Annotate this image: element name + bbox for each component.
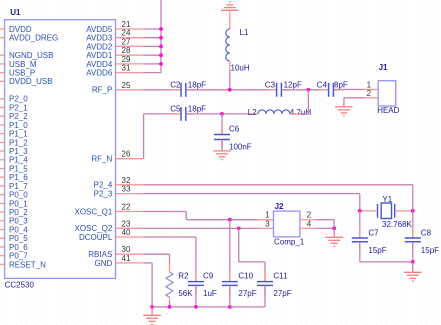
pin RBIAS (30) stub: [116, 253, 144, 255]
capacitor C7 plates: [352, 238, 368, 242]
svg-text:22: 22: [122, 203, 131, 212]
svg-text:21: 21: [122, 20, 131, 29]
svg-text:P0_3: P0_3: [9, 217, 28, 226]
wire RBIAS (30) to R2: [144, 253, 170, 255]
pin NGND_USB stub: [0, 54, 5, 56]
capacitor C2 pin stubs: [172, 89, 181, 91]
pin P2_4 (32) stub: [116, 184, 144, 186]
inductor L2 coil: [258, 110, 290, 114]
junction C3/C4/L2: [307, 88, 311, 92]
wire RF_N to C5: [144, 113, 181, 115]
svg-text:RESET_N: RESET_N: [9, 260, 46, 269]
svg-text:P2_2: P2_2: [9, 112, 28, 121]
pin P1_5 stub: [0, 168, 5, 170]
svg-text:27: 27: [122, 37, 131, 46]
svg-text:P1_5: P1_5: [9, 164, 28, 173]
junction Y1 right: [411, 209, 415, 213]
capacitor C3 plates: [277, 83, 282, 97]
svg-text:U1: U1: [10, 8, 21, 17]
svg-text:15pF: 15pF: [368, 246, 386, 255]
connector J2 body: [274, 211, 300, 237]
svg-text:25: 25: [122, 81, 131, 90]
capacitor C3 pin stubs: [268, 89, 277, 91]
capacitor C4 plates: [329, 83, 334, 97]
svg-text:P0_0: P0_0: [9, 191, 28, 200]
J2 pin 3 stub: [258, 227, 274, 229]
inductor L1 coil: [226, 29, 230, 61]
wire C2 to C3: [186, 89, 277, 91]
capacitor C11 pin stubs: [264, 273, 266, 282]
wire AVDD pin row to bus: [144, 54, 162, 56]
svg-text:HEAD: HEAD: [377, 106, 399, 115]
pin P0_3 stub: [0, 220, 5, 222]
wire AVDD pin row to bus: [144, 28, 162, 30]
svg-text:32: 32: [122, 176, 131, 185]
svg-text:C3: C3: [265, 81, 276, 90]
svg-text:DCOUPL: DCOUPL: [79, 233, 113, 242]
ground (C7/C8): [404, 272, 422, 281]
svg-text:Comp_1: Comp_1: [274, 237, 305, 246]
svg-text:27pF: 27pF: [238, 289, 256, 298]
pin DVDD stub: [0, 28, 5, 30]
svg-text:P0_2: P0_2: [9, 208, 28, 217]
svg-text:P1_0: P1_0: [9, 121, 28, 130]
wire C3 to C4: [281, 89, 328, 91]
svg-text:26: 26: [122, 150, 131, 159]
junction: [159, 36, 163, 40]
pin USB_M stub: [0, 63, 5, 65]
svg-text:18pF: 18pF: [188, 105, 206, 114]
svg-text:P0_6: P0_6: [9, 243, 28, 252]
svg-text:P2_0: P2_0: [9, 95, 28, 104]
svg-text:P2_4: P2_4: [94, 181, 113, 190]
wire DCOUPL (40) to C9: [144, 236, 196, 238]
junction bus/C10: [228, 305, 232, 309]
junction: [159, 27, 163, 31]
junction: [159, 45, 163, 49]
capacitor C5 pin stubs: [172, 113, 181, 115]
pin AVDD2 (27) stub: [116, 45, 144, 47]
svg-text:DVDD_USB: DVDD_USB: [9, 77, 53, 86]
capacitor C6 pin stubs: [221, 126, 223, 135]
svg-text:C9: C9: [203, 271, 214, 280]
capacitor C10 plates: [222, 282, 238, 286]
pin DVDD_USB stub: [0, 80, 5, 82]
svg-text:P1_7: P1_7: [9, 182, 28, 191]
capacitor C9 pin stubs: [195, 273, 197, 282]
svg-text:C10: C10: [238, 271, 253, 280]
svg-text:USB_M: USB_M: [9, 60, 37, 69]
svg-text:41: 41: [122, 254, 131, 263]
junction C7/C8 ground: [411, 260, 415, 264]
svg-text:29: 29: [122, 55, 131, 64]
svg-text:8pF: 8pF: [334, 81, 348, 90]
wire AVDD pin row to bus: [144, 72, 162, 74]
resistor R2 zigzag: [166, 272, 173, 297]
svg-text:12pF: 12pF: [284, 81, 302, 90]
ground (C6): [213, 151, 231, 160]
pin AVDD4 (29) stub: [116, 63, 144, 65]
ground bus: [152, 306, 265, 308]
capacitor C2 plates: [181, 83, 186, 97]
svg-text:L1: L1: [240, 28, 249, 37]
pin P0_1 stub: [0, 202, 5, 204]
svg-text:P1_6: P1_6: [9, 173, 28, 182]
capacitor C11 plates: [257, 282, 273, 286]
svg-text:NGND_USB: NGND_USB: [9, 51, 53, 60]
pin P0_4 stub: [0, 229, 5, 231]
svg-text:AVDD4: AVDD4: [86, 60, 113, 69]
wire RF_P to C2: [144, 89, 182, 91]
svg-text:XOSC_Q2: XOSC_Q2: [75, 224, 113, 233]
svg-text:RF_P: RF_P: [92, 86, 112, 95]
svg-text:10uH: 10uH: [231, 63, 250, 72]
pin P2_3 (33) stub: [116, 193, 144, 195]
wire Y1 right: [395, 210, 413, 212]
svg-text:AVDD_DREG: AVDD_DREG: [9, 34, 58, 43]
svg-text:RBIAS: RBIAS: [88, 250, 112, 259]
svg-text:C6: C6: [229, 124, 240, 133]
svg-text:100nF: 100nF: [229, 143, 252, 152]
junction: [159, 62, 163, 66]
svg-text:C2: C2: [170, 81, 181, 90]
junction bus/C9: [194, 305, 198, 309]
svg-text:AVDD6: AVDD6: [86, 69, 113, 78]
pin DCOUPL (40) stub: [116, 236, 144, 238]
J1 pin 1 stub: [364, 89, 378, 91]
capacitor C4 pin stubs: [320, 89, 329, 91]
svg-text:18pF: 18pF: [188, 81, 206, 90]
svg-text:28: 28: [122, 46, 131, 55]
junction: [159, 53, 163, 57]
svg-text:CC2530: CC2530: [5, 280, 35, 289]
pin RF_P (25) stub: [116, 89, 144, 91]
junction J2 ground: [332, 227, 336, 231]
svg-text:2: 2: [367, 89, 372, 98]
svg-text:C11: C11: [273, 271, 288, 280]
svg-text:P0_7: P0_7: [9, 252, 28, 261]
svg-text:J2: J2: [275, 202, 284, 211]
wire C5 to L2: [186, 113, 249, 115]
pin P1_3 stub: [0, 150, 5, 152]
junction bus/R2: [168, 305, 172, 309]
svg-text:XOSC_Q1: XOSC_Q1: [75, 207, 113, 216]
pin RESET_N stub: [0, 263, 5, 265]
wire C10: [229, 220, 231, 282]
pin P1_2 stub: [0, 141, 5, 143]
svg-text:P1_2: P1_2: [9, 138, 28, 147]
svg-text:P1_1: P1_1: [9, 130, 28, 139]
ground (bus): [143, 315, 161, 324]
svg-text:23: 23: [122, 219, 131, 228]
wire GND (41) down: [144, 262, 153, 264]
wire RF_N to C6: [221, 114, 223, 135]
J2 pin 2 stub: [300, 219, 316, 221]
pin XOSC_Q2 (23) stub: [116, 227, 144, 229]
junction C6/RF_N: [220, 112, 224, 116]
wire C7 bottom to C8 bottom: [360, 261, 413, 263]
svg-text:P1_3: P1_3: [9, 147, 28, 156]
junction L1/RF_P: [228, 88, 232, 92]
pin P0_6 stub: [0, 246, 5, 248]
pin AVDD1 (28) stub: [116, 54, 144, 56]
connector J1 body: [378, 81, 396, 106]
wire Y1 left: [360, 210, 378, 212]
svg-text:56K: 56K: [178, 289, 193, 298]
junction C10/XOSC_Q1: [228, 218, 232, 222]
wire XOSC_Q2 (23): [144, 227, 259, 229]
power symbol (inverted bars) above L1: [221, 2, 239, 10]
svg-text:15pF: 15pF: [421, 246, 439, 255]
svg-text:P1_4: P1_4: [9, 156, 28, 165]
ground (J1 pin2): [335, 107, 353, 116]
wire C4 to J1 pin1: [333, 89, 364, 91]
svg-text:AVDD5: AVDD5: [86, 25, 113, 34]
pin P0_2 stub: [0, 211, 5, 213]
svg-text:GND: GND: [95, 259, 113, 268]
wire C11: [238, 228, 240, 262]
svg-text:AVDD2: AVDD2: [86, 42, 113, 51]
pin P1_0 stub: [0, 124, 5, 126]
svg-text:P0_4: P0_4: [9, 226, 28, 235]
pin P1_1 stub: [0, 133, 5, 135]
svg-text:J1: J1: [379, 63, 388, 72]
ground (J2): [325, 237, 343, 246]
capacitor C10 pin stubs: [229, 273, 231, 282]
svg-text:40: 40: [122, 228, 131, 237]
AVDD power bus vertical wire: [160, 0, 162, 73]
svg-text:P0_1: P0_1: [9, 199, 28, 208]
capacitor C8 pin stubs: [412, 229, 414, 238]
svg-text:32.768K: 32.768K: [382, 220, 412, 229]
junction bus/gnd: [150, 305, 154, 309]
L2 pin stub: [249, 113, 258, 115]
J1 pin 2 stub: [364, 97, 378, 99]
svg-text:33: 33: [122, 185, 131, 194]
pin P2_0 stub: [0, 98, 5, 100]
pin USB_P stub: [0, 72, 5, 74]
svg-text:C8: C8: [421, 228, 432, 237]
pin GND (41) stub: [116, 262, 144, 264]
svg-text:AVDD1: AVDD1: [86, 51, 113, 60]
pin P1_4 stub: [0, 159, 5, 161]
svg-text:Y1: Y1: [382, 195, 392, 204]
capacitor C5 plates: [181, 107, 186, 121]
svg-text:31: 31: [122, 64, 131, 73]
wire AVDD pin row to bus: [144, 45, 162, 47]
J2 pin 4 stub: [300, 227, 316, 229]
wire C7: [359, 211, 361, 238]
wire AVDD pin row to bus: [144, 37, 162, 39]
svg-text:DVDD: DVDD: [9, 25, 32, 34]
pin P0_5 stub: [0, 237, 5, 239]
junction C11/XOSC_Q2: [237, 227, 241, 231]
capacitor C6 plates: [214, 135, 230, 140]
pin RF_N (26) stub: [116, 158, 144, 160]
pin P1_6 stub: [0, 176, 5, 178]
wire C8: [412, 211, 414, 238]
svg-text:3: 3: [265, 219, 270, 228]
svg-text:1: 1: [265, 211, 270, 220]
svg-text:P0_5: P0_5: [9, 234, 28, 243]
svg-text:P2_1: P2_1: [9, 103, 28, 112]
pin P2_2 stub: [0, 115, 5, 117]
capacitor C9 plates: [188, 282, 204, 286]
svg-text:USB_P: USB_P: [9, 69, 35, 78]
svg-text:2: 2: [307, 211, 312, 220]
pin XOSC_Q1 (22) stub: [116, 211, 144, 213]
pin P0_0 stub: [0, 194, 5, 196]
svg-text:C5: C5: [170, 105, 181, 114]
pin AVDD3 (24) stub: [116, 37, 144, 39]
svg-text:24: 24: [122, 29, 131, 38]
pin AVDD5 (21) stub: [116, 28, 144, 30]
svg-text:AVDD3: AVDD3: [86, 34, 113, 43]
wire C6 to ground: [221, 140, 223, 151]
L2 pin stub: [290, 113, 299, 115]
crystal Y1: [378, 203, 395, 219]
wire power to L1: [229, 10, 231, 29]
pin AVDD6 (31) stub: [116, 72, 144, 74]
svg-text:C4: C4: [317, 81, 328, 90]
wire RF_N vertical riser: [143, 114, 145, 159]
svg-text:P2_3: P2_3: [94, 190, 113, 199]
capacitor C7 pin stubs: [359, 229, 361, 238]
svg-text:C7: C7: [368, 228, 379, 237]
svg-text:L2: L2: [248, 108, 257, 117]
pin P0_7 stub: [0, 255, 5, 257]
svg-text:27pF: 27pF: [273, 289, 291, 298]
wire bus to ground symbol: [151, 307, 153, 315]
J2 pin 1 stub: [258, 219, 274, 221]
svg-text:RF_N: RF_N: [91, 155, 112, 164]
IC U1 CC2530 body: [5, 20, 116, 279]
wire P2_3 (33) to C7/Y1: [144, 193, 360, 195]
pin P2_1 stub: [0, 107, 5, 109]
pin P1_7 stub: [0, 185, 5, 187]
svg-text:R2: R2: [178, 271, 189, 280]
wire P2_4 (32) to C8/Y1: [144, 184, 413, 186]
wire XOSC_Q1 (22): [144, 211, 187, 213]
capacitor C8 plates: [405, 238, 421, 242]
wire L1 to RF_P: [229, 61, 231, 70]
pin AVDD_DREG stub: [0, 37, 5, 39]
svg-text:30: 30: [122, 245, 131, 254]
svg-text:1uF: 1uF: [203, 289, 217, 298]
wire AVDD pin row to bus: [144, 63, 162, 65]
junction Y1 left: [358, 209, 362, 213]
svg-text:4: 4: [307, 219, 312, 228]
